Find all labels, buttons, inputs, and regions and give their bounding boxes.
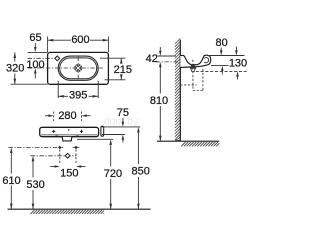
rim top ext line (right): [207, 55, 245, 57]
dimension 610: [2, 147, 20, 209]
drain axis dashed (side view): [192, 60, 194, 91]
svg-text:42: 42: [146, 53, 158, 65]
ext line for dim 720: [77, 138, 113, 140]
svg-text:810: 810: [150, 95, 168, 107]
svg-text:80: 80: [215, 37, 227, 49]
svg-text:600: 600: [71, 34, 89, 46]
rim bottom ext line (right) for dim 80: [211, 65, 229, 67]
basin profile (side view): [180, 55, 210, 67]
dimension 65: [29, 32, 41, 52]
drain spigot below slab: [62, 137, 72, 141]
svg-text:150: 150: [60, 167, 78, 179]
drain mark: [74, 64, 82, 72]
basin front slab: [40, 127, 99, 136]
ext line bottom for dim 75: [102, 134, 125, 136]
basin outline (plan): [48, 52, 109, 84]
dimension 80: [215, 37, 227, 75]
drain centerline (dash-dot, lower): [31, 155, 77, 157]
svg-text:395: 395: [69, 90, 87, 102]
tap hole diamond: [55, 56, 60, 61]
floor hatching (side view): [181, 142, 219, 146]
dimension 42: [146, 47, 162, 65]
ext line y71.4 for dim 130: [196, 70, 247, 72]
centerline horizontal through drain: [28, 67, 103, 69]
supply diamond right: [74, 146, 77, 149]
top edge extension line (left): [28, 51, 48, 53]
dimension 395: [58, 90, 98, 102]
dimension 215: [114, 58, 132, 80]
supply centerline (dash-dot, upper): [8, 146, 63, 148]
svg-text:320: 320: [6, 62, 24, 74]
fixing hole left: [52, 130, 55, 133]
dimension 850: [132, 127, 150, 209]
dim 600 extension ticks: [47, 37, 49, 53]
trap space dashed box: [202, 69, 204, 91]
dimension 280: [45, 110, 91, 122]
floor hatching (front view): [31, 210, 105, 214]
ext line top (shared 75 / 850): [101, 126, 140, 128]
apron inner line: [41, 134, 97, 136]
floor line (front view): [8, 208, 151, 210]
dimension 75: [117, 107, 129, 142]
dimension 320: [6, 52, 24, 84]
rim front inner line (D hook): [204, 58, 208, 63]
svg-text:65: 65: [29, 32, 41, 44]
dimension 530: [26, 156, 44, 209]
dimension 100: [26, 59, 44, 78]
dimension 130: [229, 47, 247, 80]
supply diamond left: [58, 146, 61, 149]
waste outlet dashed line to wall: [180, 84, 196, 86]
wall line: [179, 40, 181, 141]
towel rail end (right of slab): [101, 126, 104, 136]
supply dashed drop lines: [59, 149, 61, 164]
tap hole centerline: [28, 57, 56, 59]
rim top ext line (left of wall): [158, 55, 176, 57]
svg-text:75: 75: [117, 107, 129, 119]
drain diamond: [65, 153, 70, 158]
floor line (side view): [157, 140, 219, 142]
bowl inner rim (plan): [60, 58, 97, 79]
svg-text:215: 215: [114, 64, 132, 76]
dimension 720: [104, 139, 122, 209]
bowl outer rim (plan): [58, 56, 98, 80]
fixing holes centerline (left of wall): [156, 61, 181, 63]
dimension 600: [48, 34, 109, 46]
drain fitting (side view): [190, 65, 196, 71]
centerline vertical through drain: [77, 57, 79, 80]
svg-text:720: 720: [104, 168, 122, 180]
dimension 150: [50, 165, 85, 179]
svg-text:280: 280: [58, 110, 76, 122]
center tick on slab: [68, 129, 70, 131]
dim 280 extension dashes: [53, 112, 55, 122]
dim 215 extension lines: [100, 57, 126, 59]
bottom edge extension line (left): [11, 83, 48, 85]
dim 395 extension lines: [57, 81, 59, 98]
svg-text:610: 610: [2, 175, 20, 187]
svg-text:530: 530: [26, 179, 44, 191]
svg-text:850: 850: [132, 166, 150, 178]
dimension 810: [150, 62, 168, 141]
svg-text:130: 130: [229, 58, 247, 70]
fixing hole right: [80, 130, 83, 133]
wall hatching: [175, 39, 180, 142]
